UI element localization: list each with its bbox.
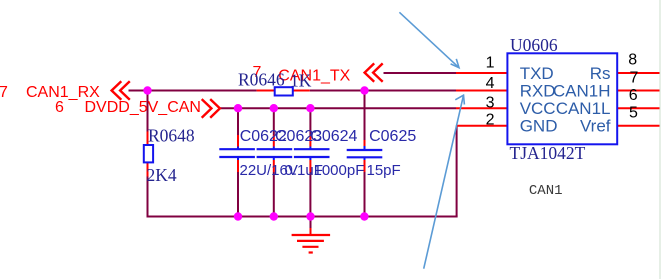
wire C0625 lead upper: [364, 91, 366, 141]
page boundary line: [659, 0, 661, 279]
wire C0623 lead lower: [273, 172, 275, 217]
port chevron DVDD_5V_CAN: [202, 99, 220, 118]
wire ground stub: [310, 217, 312, 231]
IC U0606 TJA1042T body: [507, 53, 617, 144]
ground: [292, 228, 331, 253]
junction node DVDD / C0623: [270, 104, 278, 112]
svg-text:CAN1: CAN1: [529, 183, 563, 199]
wire CAN1_RX right segment: [310, 90, 456, 92]
svg-text:22U/16V: 22U/16V: [240, 162, 298, 179]
wire C0624 lead upper: [309, 108, 311, 135]
resistor R0648 pins: [147, 132, 149, 177]
svg-text:C0625: C0625: [369, 128, 416, 145]
pin 8 stub right: [617, 72, 659, 74]
svg-text:2K4: 2K4: [147, 165, 177, 185]
capacitor C0625: [347, 140, 383, 172]
pin 2 stub left: [457, 125, 508, 127]
pin 7 stub right: [617, 90, 659, 92]
svg-text:U0606: U0606: [510, 35, 558, 55]
svg-text:C0622: C0622: [240, 128, 287, 145]
svg-text:RXD: RXD: [520, 82, 556, 101]
pin 5 stub right: [617, 125, 659, 127]
annotation arrow 1: [399, 12, 459, 67]
svg-text:R0646: R0646: [238, 70, 285, 90]
pin 1 stub left: [456, 72, 507, 74]
junction node DVDD / C0624: [306, 104, 314, 112]
wire C0622 lead upper: [237, 108, 239, 135]
resistor R0646 pins: [257, 90, 310, 92]
junction node GND rail / ground symbol: [306, 212, 314, 220]
svg-text:1K: 1K: [290, 71, 312, 91]
svg-text:Vref: Vref: [580, 117, 611, 136]
svg-text:15pF: 15pF: [367, 162, 401, 179]
svg-text:VCC: VCC: [520, 99, 556, 118]
wire GND vertical from pin2: [456, 126, 458, 217]
wire C0625 lead lower: [364, 172, 366, 217]
capacitor C0622: [219, 135, 255, 172]
svg-text:DVDD_5V_CAN: DVDD_5V_CAN: [85, 99, 201, 116]
pin 3 stub left: [456, 107, 507, 109]
wire DVDD_5V_CAN rail: [219, 107, 456, 109]
svg-text:8: 8: [628, 52, 637, 69]
svg-text:5: 5: [629, 105, 638, 122]
svg-text:CAN1H: CAN1H: [553, 82, 611, 101]
pin 4 stub left: [456, 90, 507, 92]
resistor R0646 body: [275, 87, 293, 95]
junction node CAN1_RX / R0648: [143, 86, 151, 94]
wire R0648 branch lower: [147, 177, 149, 217]
svg-text:6: 6: [55, 99, 64, 116]
svg-text:R0648: R0648: [148, 126, 195, 146]
wire CAN1_TX horizontal: [384, 72, 457, 74]
svg-text:Rs: Rs: [590, 64, 611, 83]
junction node DVDD / C0622: [234, 104, 242, 112]
annotation arrow 2: [424, 95, 465, 269]
svg-text:6: 6: [629, 87, 638, 104]
svg-text:2: 2: [486, 112, 495, 129]
wire C0623 lead upper: [273, 108, 275, 135]
svg-text:CAN1L: CAN1L: [556, 99, 611, 118]
pin 6 stub right: [617, 107, 659, 109]
svg-text:TJA1042T: TJA1042T: [510, 143, 586, 163]
capacitor C0623: [257, 135, 293, 172]
svg-text:TXD: TXD: [520, 64, 554, 83]
svg-text:7: 7: [630, 69, 639, 86]
svg-text:GND: GND: [520, 117, 558, 136]
svg-text:1: 1: [486, 55, 495, 72]
svg-text:3: 3: [486, 95, 495, 112]
wire CAN1_RX left segment: [129, 90, 257, 92]
junction node GND rail / C0622: [234, 212, 242, 220]
capacitor C0624: [294, 135, 330, 172]
wire ground bottom rail: [147, 216, 458, 218]
junction node GND rail / C0625: [360, 212, 368, 220]
wire R0648 branch upper: [147, 91, 149, 132]
wire C0624 lead lower: [309, 172, 311, 217]
port chevron CAN1_RX: [112, 81, 130, 100]
svg-text:7: 7: [0, 84, 8, 101]
junction node GND rail / C0623: [270, 212, 278, 220]
port chevron CAN1_TX: [365, 63, 383, 81]
resistor R0648 body: [144, 145, 153, 162]
wire C0622 lead lower: [237, 172, 239, 217]
svg-text:4: 4: [486, 75, 495, 92]
junction node CAN1_RX / C0625: [360, 86, 368, 94]
